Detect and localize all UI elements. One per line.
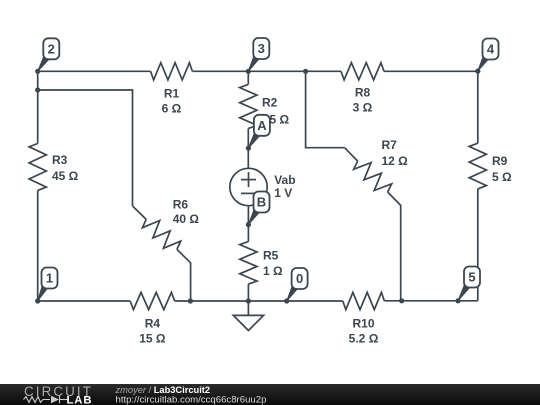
wire left rail lower (R3 to node1)	[37, 190, 39, 301]
svg-text:5: 5	[468, 270, 475, 285]
wire top rail left (node2 to R1)	[38, 70, 151, 72]
svg-text:B: B	[257, 195, 266, 210]
svg-text:5 Ω: 5 Ω	[270, 112, 290, 126]
wire source to R5 through node B	[247, 206, 249, 242]
node B flag	[248, 192, 269, 225]
svg-text:1 V: 1 V	[274, 186, 292, 200]
resistor R9	[469, 143, 486, 189]
wire R7 top lead	[345, 148, 358, 161]
svg-text:A: A	[257, 118, 267, 133]
junction R7 to bottom rail dot	[399, 298, 404, 303]
node 2 junction dot	[35, 69, 40, 74]
svg-text:5 Ω: 5 Ω	[492, 170, 512, 184]
node A flag	[248, 115, 270, 148]
resistor R7	[354, 161, 392, 192]
svg-text:R6: R6	[173, 198, 189, 212]
node 0 junction dot	[284, 298, 289, 303]
svg-text:3 Ω: 3 Ω	[353, 101, 373, 115]
wire right rail upper (node4 to R9)	[477, 71, 479, 143]
voltage source plus sign	[241, 179, 256, 181]
node 3 junction dot	[246, 69, 251, 74]
wire bottom rail left (node1 to R4)	[38, 300, 131, 302]
svg-text:R4: R4	[145, 317, 161, 331]
svg-text:LAB: LAB	[67, 394, 93, 405]
svg-text:1: 1	[46, 271, 53, 286]
wire R7 branch from top rail	[306, 71, 345, 147]
wire left rail upper (node2 to R3)	[37, 71, 39, 143]
wire right rail lower (R9 to bottom corner)	[477, 189, 479, 301]
wire R5 to bottom rail	[247, 284, 249, 301]
resistor R2	[240, 84, 257, 128]
junction R5/ground on bottom rail dot	[246, 298, 251, 303]
node 3 flag	[248, 38, 269, 71]
junction node2/R3/R6 branch dot	[35, 87, 40, 92]
wire top rail right (R8 to node 4)	[384, 70, 478, 72]
junction top rail to R7 dot	[303, 69, 308, 74]
node 0 flag	[287, 268, 308, 301]
wire center node3 to R2	[247, 71, 249, 84]
voltage source minus sign	[241, 192, 256, 194]
node 4 flag	[478, 39, 499, 72]
node 5 flag	[458, 267, 480, 301]
svg-text:5.2 Ω: 5.2 Ω	[349, 332, 379, 346]
svg-text:0: 0	[296, 271, 303, 286]
svg-text:6 Ω: 6 Ω	[162, 102, 182, 116]
CircuitLab logo waveform	[24, 396, 69, 403]
svg-text:R9: R9	[492, 154, 508, 168]
svg-text:40 Ω: 40 Ω	[173, 212, 200, 226]
svg-text:R1: R1	[164, 87, 180, 101]
svg-text:R7: R7	[382, 138, 398, 152]
wire R6 bottom lead to bottom rail	[177, 249, 191, 301]
svg-text:45 Ω: 45 Ω	[52, 169, 79, 183]
svg-text:Vab: Vab	[274, 173, 295, 187]
svg-text:1 Ω: 1 Ω	[263, 264, 283, 278]
svg-text:R5: R5	[263, 249, 279, 263]
node 4 junction dot	[475, 69, 480, 74]
wire branch node2 to R6 (down at x=132.5)	[38, 90, 133, 206]
wire R6 top lead	[133, 206, 147, 219]
wire bottom rail middle (R4 to R10)	[175, 300, 343, 302]
svg-text:2: 2	[48, 42, 55, 57]
node 1 flag	[38, 268, 58, 302]
svg-text:R2: R2	[262, 95, 278, 109]
resistor R1	[151, 63, 193, 80]
resistor R4	[130, 292, 174, 309]
voltage source V1 circle	[230, 168, 267, 205]
node B junction dot	[246, 222, 251, 227]
ground symbol	[247, 301, 249, 315]
svg-text:http://circuitlab.com/ccq66c8r: http://circuitlab.com/ccq66c8r6uu2p	[116, 394, 267, 405]
junction R6 to bottom rail dot	[188, 298, 193, 303]
resistor R6	[142, 219, 180, 249]
resistor R10	[343, 292, 385, 309]
wire R2 to source through node A	[247, 129, 249, 169]
node 2 flag	[38, 38, 60, 71]
svg-text:4: 4	[487, 42, 495, 57]
svg-text:12 Ω: 12 Ω	[382, 154, 409, 168]
resistor R5	[240, 242, 257, 285]
node 5 junction dot	[455, 298, 460, 303]
wire bottom rail right (R10 to right rail corner)	[384, 300, 477, 302]
node A junction dot	[246, 146, 251, 151]
wire top rail middle (R1 to R8 through node 3)	[192, 70, 341, 72]
svg-text:R10: R10	[352, 317, 374, 331]
svg-text:15 Ω: 15 Ω	[139, 332, 166, 346]
svg-text:3: 3	[258, 41, 265, 56]
svg-text:R3: R3	[52, 153, 68, 167]
wire R7 bottom lead to bottom rail	[388, 192, 401, 301]
resistor R8	[341, 63, 384, 80]
node 1 junction dot	[35, 298, 40, 303]
svg-text:R8: R8	[355, 86, 371, 100]
resistor R3	[29, 144, 46, 191]
